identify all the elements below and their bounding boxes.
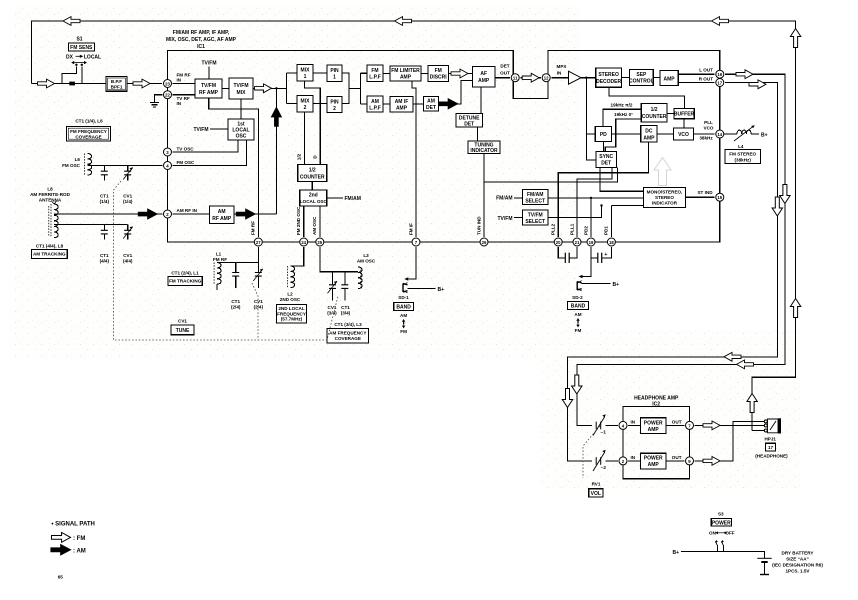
wire pin23 to RF AMP [173, 83, 195, 85]
capacitor CV1 2/4 variable [253, 247, 263, 288]
node AM/FM junction [275, 87, 277, 89]
svg-text:OUT: OUT [672, 419, 682, 424]
svg-text:COUNTER: COUNTER [642, 114, 667, 120]
label CT1 (4/4) [100, 253, 110, 264]
wire buffer to vco [683, 119, 685, 128]
svg-text:COUNTER: COUNTER [300, 175, 325, 181]
svg-text:DX: DX [66, 54, 74, 60]
svg-text:MIX: MIX [301, 68, 311, 74]
wire antenna lower tap [54, 224, 128, 226]
wire 2nd osc to pin25 [319, 206, 321, 237]
svg-text:POWER: POWER [644, 420, 663, 426]
pin 19 PD2 [587, 238, 595, 246]
wire DC AMP to VCO [657, 133, 674, 135]
inductor L3 [358, 267, 362, 289]
wire TV/FM label to osc [210, 128, 228, 130]
inductor L2 [288, 266, 295, 288]
wire pin12 to buffer triangle [551, 77, 568, 79]
svg-text:STEREO: STEREO [598, 72, 619, 78]
svg-text:AMP: AMP [400, 75, 412, 81]
wire discri to AF AMP [449, 73, 473, 75]
wire SD-2 to B+ [582, 282, 611, 284]
wire pot2 to pin2 [606, 460, 618, 462]
wire 2nd osc to pin24 [303, 206, 305, 237]
wire jack sleeve [752, 430, 765, 432]
svg-text:PD1: PD1 [604, 226, 609, 235]
wire MIX2 to PIN2 [313, 103, 327, 105]
FM big arrow up on right antenna vertical [790, 299, 800, 318]
svg-text:AM OSC: AM OSC [357, 259, 376, 264]
svg-text:1/2: 1/2 [309, 168, 316, 174]
pin 22 TV RF IN [164, 91, 172, 99]
wire pin22 to ground [155, 95, 163, 103]
svg-text:17: 17 [717, 81, 722, 86]
capacitor CV1 3/4 variable [328, 272, 338, 301]
wire RF AMP to MIX [222, 88, 229, 90]
wire pin22 to RF AMP [173, 94, 195, 96]
wire S1 bypass [62, 67, 82, 84]
svg-text:(1/4): (1/4) [123, 199, 133, 204]
pin 7 IC2 [686, 421, 694, 429]
arrowhead SD-2 wiper [579, 275, 583, 279]
amp POWER AMP 2 [641, 453, 667, 469]
svg-text:(IEC DESIGNATION R6): (IEC DESIGNATION R6) [772, 563, 823, 568]
svg-text:2: 2 [333, 106, 336, 112]
wire limiter bottom to pin7 [412, 81, 416, 237]
svg-text:PIN: PIN [330, 68, 339, 74]
select FM/AM SELECT [522, 189, 548, 204]
wire AF AMP to detune det [480, 87, 482, 114]
wire mono indicator to pin15 [686, 196, 715, 198]
svg-text:TV OSC: TV OSC [177, 147, 195, 152]
svg-text:COVERAGE: COVERAGE [75, 135, 101, 140]
wire TV/FM select out [548, 206, 602, 218]
wire pin2 to power amp2 [628, 460, 640, 462]
wire MPX node down to PD and sync det [586, 78, 596, 160]
svg-text:IN: IN [177, 101, 182, 106]
FM big arrow down on LOUT vertical [780, 185, 790, 204]
capacitor CT1 3/4 [341, 272, 348, 301]
svg-text:POWER: POWER [712, 520, 731, 526]
svg-text:SEP: SEP [636, 72, 647, 78]
svg-text:CT1 (3/4), L3: CT1 (3/4), L3 [334, 322, 362, 327]
svg-text:RF AMP: RF AMP [199, 90, 219, 96]
FM arrow det out [522, 73, 539, 82]
battery BAT1 [757, 558, 771, 574]
svg-text:LOCAL: LOCAL [84, 54, 101, 60]
svg-text:INDICATOR: INDICATOR [652, 200, 678, 205]
svg-text:DET: DET [464, 122, 474, 128]
svg-text:B+: B+ [672, 550, 679, 556]
wire TV/FM to RF AMP [208, 67, 210, 80]
capacitor CV1 1/4 variable [123, 166, 133, 181]
wire MIX1 counter tap [305, 81, 321, 165]
wire amp to LOUT pin16 [678, 73, 714, 75]
pin 21 PLL1 [573, 238, 581, 246]
svg-text:CT1 (1/4), L6: CT1 (1/4), L6 [75, 119, 103, 124]
box FM FREQUENCY COVERAGE [67, 126, 111, 141]
wire pin25 to L3 [320, 247, 358, 272]
box BAND SD-2 [568, 302, 589, 310]
box FM STEREO 38kHz [725, 149, 761, 163]
label CT1 (3/4) [341, 305, 351, 316]
svg-text:B+: B+ [438, 287, 445, 293]
FM arrow after discri [451, 69, 468, 78]
svg-text:22: 22 [165, 93, 170, 98]
box BAND SD-1 [394, 303, 414, 311]
FM arrow LOUT [736, 70, 753, 79]
wire detune to tuning indicator [476, 127, 478, 141]
pin 16 L OUT [716, 70, 724, 78]
FM arrow on lower return wire [737, 360, 754, 369]
filter AM L.P.F [367, 96, 383, 112]
box AM FREQUENCY COVERAGE [327, 329, 368, 343]
svg-text:RV1: RV1 [592, 482, 601, 487]
svg-text:(HEADPHONE): (HEADPHONE) [755, 453, 788, 458]
svg-text:FM/AM RF AMP, IF AMP,: FM/AM RF AMP, IF AMP, [173, 30, 230, 36]
svg-text:FM: FM [371, 68, 378, 74]
label L2 2ND OSC [280, 291, 301, 302]
svg-text:MIX: MIX [301, 99, 311, 105]
svg-text:(4/4): (4/4) [123, 259, 133, 264]
svg-text:+: + [604, 252, 607, 258]
svg-text:CT1: CT1 [341, 305, 350, 310]
svg-text:FM/AM: FM/AM [527, 192, 543, 198]
wire LOUT to headphone path [577, 74, 785, 425]
svg-text:DECODER: DECODER [596, 79, 621, 85]
pin 3 TV OSC [164, 148, 172, 156]
svg-text:B+: B+ [613, 282, 620, 288]
box 2ND LOCAL FREQUENCY [277, 304, 307, 323]
svg-text:DET: DET [500, 64, 509, 69]
svg-text:1: 1 [304, 74, 307, 80]
svg-text:1PCS. 1.5V: 1PCS. 1.5V [785, 569, 810, 574]
svg-text:DISCRI: DISCRI [430, 75, 448, 81]
svg-text:DC: DC [645, 129, 653, 135]
buffer BUFFER [674, 109, 695, 119]
wire AM RF AMP out [234, 213, 276, 215]
box AM TRACKING [31, 249, 67, 258]
svg-text:TUNE: TUNE [176, 328, 190, 334]
FM arrow on top wire right [712, 17, 729, 26]
svg-text:19kHz 0°: 19kHz 0° [614, 112, 633, 117]
wire counter to buffer [667, 113, 674, 115]
dashed tuning gang line [114, 181, 339, 340]
svg-text:OUT: OUT [500, 71, 510, 76]
svg-text:23: 23 [165, 82, 170, 87]
pin 17 R OUT [716, 79, 724, 87]
svg-text:OSC: OSC [236, 134, 247, 140]
counter 1/2 COUNTER pll [641, 104, 667, 122]
wire antenna top loop [32, 21, 796, 431]
svg-text:12: 12 [544, 76, 549, 81]
capacitor CT1 1/4 [101, 166, 108, 181]
legend FM arrow [51, 532, 70, 542]
label ON OFF [709, 531, 735, 536]
capacitor C PLL between pins 20 21 [558, 247, 577, 263]
svg-text:IN: IN [631, 419, 636, 424]
inductor L1 [214, 263, 221, 291]
svg-text:AM: AM [574, 312, 581, 317]
svg-text:• SIGNAL PATH: • SIGNAL PATH [51, 522, 94, 528]
box POWER [711, 519, 731, 527]
svg-text:L OUT: L OUT [699, 68, 713, 73]
pin 14 PLL VCO [716, 130, 724, 138]
svg-text:FM/AM: FM/AM [496, 196, 512, 202]
wire FM/AM label to box [514, 197, 522, 199]
svg-text:2nd: 2nd [309, 193, 318, 199]
label CT1 (2/4) [231, 299, 241, 310]
box VOL [589, 489, 603, 497]
pin 12 MPX IN [542, 74, 550, 82]
legend AM arrow [51, 544, 71, 555]
svg-text:2ND OSC: 2ND OSC [280, 297, 301, 302]
svg-text:AMP: AMP [648, 462, 660, 468]
arrowhead SD-1 wiper [404, 277, 408, 281]
mixer TV/FM MIX [229, 78, 253, 99]
pin 20 PLL2 [554, 238, 562, 246]
svg-text:S3: S3 [718, 512, 724, 517]
capacitor CT1 4/4 [101, 225, 108, 240]
svg-text:BPF1: BPF1 [111, 85, 123, 90]
amp POWER AMP 1 [641, 418, 667, 434]
det DETUNE DET [456, 114, 483, 128]
svg-text:L4: L4 [738, 144, 744, 149]
wire pin9 to jack [695, 421, 766, 461]
svg-text:(2/4): (2/4) [231, 305, 241, 310]
pin 24 FM 2ND OSC [300, 238, 308, 246]
filter FM L.P.F [367, 65, 383, 82]
wire SD-1 to B+ [408, 288, 436, 290]
svg-text:FM TRACKING: FM TRACKING [169, 279, 202, 284]
svg-text:AMP: AMP [648, 427, 660, 433]
svg-text:AM: AM [400, 313, 407, 318]
svg-text:SD-1: SD-1 [398, 295, 409, 300]
svg-text:FM LIMITER: FM LIMITER [391, 68, 420, 74]
svg-text:S1: S1 [76, 37, 82, 43]
svg-text:AM FREQUENCY: AM FREQUENCY [329, 331, 366, 336]
svg-text:L.P.F: L.P.F [369, 75, 381, 81]
wire PD2 pin19 riser [590, 198, 592, 237]
wire IF input split [286, 73, 297, 104]
wire 2nd osc FM/AM label [327, 197, 343, 199]
svg-text:FM SENS: FM SENS [70, 45, 93, 51]
svg-text:ON: ON [709, 531, 717, 536]
FM big arrow down right riser [572, 375, 582, 394]
node MPX [585, 77, 587, 79]
wire pin2 to AM RF AMP [173, 213, 210, 215]
amp AM IF AMP [390, 97, 413, 113]
wire 19k pi2 [603, 109, 641, 126]
svg-text:COVERAGE: COVERAGE [335, 336, 361, 341]
wire VCO to pin14 [694, 133, 715, 135]
svg-text:TV/FM: TV/FM [201, 83, 216, 89]
pin 18 PD1 [607, 238, 615, 246]
wire MIX out to node [253, 87, 286, 89]
svg-text:LOCAL OSC: LOCAL OSC [300, 199, 328, 204]
svg-text:FM IF: FM IF [408, 223, 413, 235]
svg-text:17: 17 [768, 445, 774, 450]
label DET OUT [500, 64, 510, 76]
wire PD to DC AMP [612, 133, 641, 135]
wire pd2 to SD-2 [583, 258, 592, 277]
amp TV/FM RF AMP [195, 79, 222, 98]
FM arrow ROUT [749, 80, 766, 89]
FM big arrow down on ROUT vertical [772, 197, 782, 216]
wire tuning indicator to pin26 [483, 154, 485, 237]
svg-text:AF: AF [480, 71, 487, 77]
svg-text:BUFFER: BUFFER [674, 112, 695, 118]
svg-text:CT1 (2/4), L1: CT1 (2/4), L1 [171, 270, 199, 275]
svg-text:26: 26 [482, 240, 487, 245]
svg-text:ST IND: ST IND [697, 190, 713, 195]
svg-text:(4/4): (4/4) [100, 259, 110, 264]
wire L1 tank rail [217, 262, 258, 264]
capacitor C PD electrolytic between pins 19 18 [591, 247, 611, 263]
node tvfm junction [600, 204, 602, 206]
wire triangle to stereo decoder [581, 77, 596, 79]
switch S3 [715, 540, 724, 552]
box 17 HPJ1 [766, 443, 776, 451]
svg-text:CV1: CV1 [254, 299, 263, 304]
svg-text:PIN: PIN [330, 100, 339, 106]
svg-text:L.P.F: L.P.F [369, 106, 381, 112]
switch SD-1 [403, 283, 408, 293]
svg-text:14: 14 [717, 132, 722, 137]
svg-text:TV/FM: TV/FM [498, 216, 513, 222]
wire pin4 to osc [173, 140, 247, 166]
svg-text:TUN IND: TUN IND [477, 216, 482, 235]
mixer MIX 2 [297, 96, 313, 113]
svg-text:PD2: PD2 [583, 226, 588, 235]
FM arrow on top wire mid [395, 17, 412, 26]
svg-text:CV1: CV1 [123, 194, 132, 199]
wire PD1 pin18 riser [611, 206, 643, 237]
svg-text:PLL: PLL [704, 120, 713, 125]
wire AM LPF to IF amp [383, 103, 390, 105]
vco VCO [674, 128, 694, 140]
wire L6 tank to pin4 [88, 165, 163, 167]
label CV1 (2/4) [254, 299, 264, 310]
det SYNC DET [596, 151, 617, 167]
label CV1 (3/4) [327, 305, 337, 316]
svg-text:SELECT: SELECT [525, 198, 545, 204]
pin 7 FM IF [412, 238, 420, 246]
FM arrow after MIX [255, 84, 272, 93]
wire pin11 to pin12 [520, 77, 541, 79]
label PLL VCO [704, 120, 714, 131]
label DX-LOCAL [66, 54, 101, 60]
capacitor CV1 4/4 variable [123, 225, 133, 240]
svg-text:(57.7MHz): (57.7MHz) [281, 317, 303, 322]
svg-text:25: 25 [317, 240, 322, 245]
wire decoder bottom to buffer top [609, 87, 685, 109]
mixer MIX 1 [297, 65, 313, 82]
control SEP CONTROL [629, 70, 654, 86]
svg-text:11: 11 [513, 76, 518, 81]
amp AM RF AMP [210, 206, 235, 224]
svg-text:18: 18 [609, 240, 614, 245]
FM arrow after BPF1 [133, 79, 150, 88]
wire AM riser [275, 88, 277, 214]
amp FM LIMITER AMP [390, 66, 421, 81]
svg-text:–2: –2 [601, 465, 607, 470]
AM arrow up on riser [271, 107, 282, 126]
wire pin4 to power amp1 [628, 424, 640, 426]
svg-text:–1: –1 [601, 430, 607, 435]
svg-text:IN: IN [177, 78, 182, 83]
svg-text:FM: FM [435, 68, 442, 74]
svg-text:L3: L3 [363, 253, 369, 258]
pin 27 FM RF [254, 238, 262, 246]
wire RF AMP bottom to pin27 [209, 98, 259, 237]
wire pin3 to osc [173, 140, 238, 152]
svg-text:15: 15 [717, 195, 722, 200]
wire TV/FM label to box [514, 217, 522, 219]
svg-text:2: 2 [304, 105, 307, 111]
svg-text:AMP: AMP [643, 136, 655, 142]
svg-text:FM/AM: FM/AM [345, 196, 361, 202]
svg-text:(2/4): (2/4) [254, 305, 264, 310]
capacitor CT1 2/4 [232, 263, 239, 289]
svg-text:CT1: CT1 [100, 253, 109, 258]
svg-text:MONO/STEREO,: MONO/STEREO, [647, 189, 683, 194]
label AM FM SD-1 [400, 313, 407, 334]
wire B+ to battery [681, 552, 764, 558]
svg-text:24: 24 [301, 240, 306, 245]
svg-text:SD-2: SD-2 [572, 295, 583, 300]
dashed RV1 gang line [583, 426, 600, 478]
svg-text:IN: IN [631, 455, 636, 460]
wire pin7 to SD-1 [408, 247, 416, 279]
svg-text:IN: IN [557, 71, 562, 76]
svg-text:FM OSC: FM OSC [62, 163, 81, 168]
wire MIX2 to counter [304, 112, 306, 165]
svg-text:HPJ1: HPJ1 [764, 437, 776, 442]
svg-text:VCO: VCO [704, 126, 714, 131]
svg-text:FM: FM [400, 329, 407, 334]
pin 2 IC2 [619, 457, 627, 465]
svg-text:IC1: IC1 [197, 44, 205, 50]
wire FM antenna input [32, 83, 163, 85]
svg-text:BAND: BAND [571, 303, 586, 309]
svg-text:AMP: AMP [396, 106, 408, 112]
pot RV1-2 [593, 450, 606, 471]
wire AF AMP to pin11 [495, 77, 510, 79]
svg-text:MIX, OSC, DET, AGC, AF AMP: MIX, OSC, DET, AGC, AF AMP [166, 37, 237, 43]
svg-text:AMP: AMP [664, 77, 676, 83]
switch S1 contacts [71, 61, 87, 66]
svg-text:AM: AM [218, 209, 226, 215]
label L8 AM FERRITE-ROD ANTENNA [30, 187, 70, 203]
pin 2 AM RF IN [164, 210, 172, 218]
wire sep control to amp [653, 77, 660, 79]
wire power amp2 to pin9 [666, 460, 684, 462]
FM arrow pin9 out [703, 457, 720, 466]
svg-text:CT1 (4/4), L8: CT1 (4/4), L8 [36, 243, 64, 248]
svg-text:AM: AM [371, 99, 379, 105]
label CV1 (4/4) [123, 253, 133, 264]
svg-text:20: 20 [556, 240, 561, 245]
svg-text:: AM: : AM [73, 549, 86, 555]
label FM RF IN [177, 73, 191, 83]
svg-text:19: 19 [589, 240, 594, 245]
pin 4 FM OSC [164, 162, 172, 170]
svg-text:MIX: MIX [237, 90, 247, 96]
filter BPF1 [106, 77, 127, 92]
svg-text:CV1: CV1 [178, 319, 187, 324]
svg-text:BAND: BAND [396, 304, 411, 310]
